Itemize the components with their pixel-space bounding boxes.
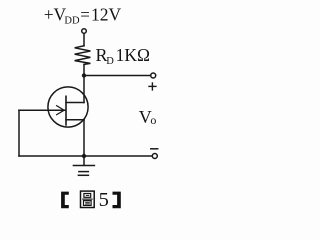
caption glyph 圖 xyxy=(81,191,95,207)
transistor channel bar xyxy=(65,96,67,125)
svg-text:o: o xyxy=(150,113,156,127)
gate arrow xyxy=(57,106,65,115)
wire drain node down to transistor drain xyxy=(83,76,85,103)
node source-rail junction xyxy=(82,154,86,158)
output terminal + xyxy=(151,73,156,78)
wire resistor to drain node xyxy=(83,64,85,75)
caption right bracket xyxy=(113,192,121,209)
svg-text:DD: DD xyxy=(64,16,80,27)
transistor source lead xyxy=(66,119,84,121)
svg-text:D: D xyxy=(106,56,114,67)
ground stub xyxy=(83,156,85,165)
wire transistor source down to ground rail xyxy=(83,120,85,156)
wire drain node to + output terminal xyxy=(84,75,151,77)
caption left bracket xyxy=(61,192,69,209)
supply terminal +VDD xyxy=(82,29,87,34)
svg-text:+V: +V xyxy=(44,4,67,24)
svg-text:=: = xyxy=(80,4,90,24)
ground symbol xyxy=(73,166,94,176)
svg-text:1KΩ: 1KΩ xyxy=(116,45,150,65)
ground rail wire xyxy=(19,155,152,157)
output terminal - xyxy=(152,154,157,159)
transistor Q1 circle xyxy=(48,87,88,127)
resistor RD xyxy=(75,46,91,65)
node drain junction xyxy=(82,73,86,77)
transistor drain lead xyxy=(66,102,84,104)
minus sign label xyxy=(151,148,158,150)
gate wire xyxy=(19,109,65,111)
svg-text:5: 5 xyxy=(99,189,109,211)
wire left vertical feedback xyxy=(18,110,20,156)
wire supply to resistor xyxy=(83,33,85,45)
plus sign label xyxy=(149,83,156,90)
svg-text:12V: 12V xyxy=(91,4,122,24)
